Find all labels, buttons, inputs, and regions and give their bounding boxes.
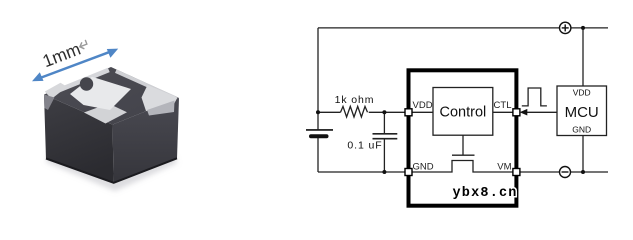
svg-text:GND: GND xyxy=(413,162,434,173)
pin squares xyxy=(405,109,520,176)
svg-text:MCU: MCU xyxy=(565,104,599,121)
chip photo: pin1 dark dot xyxy=(80,77,93,90)
svg-text:1k ohm: 1k ohm xyxy=(335,94,375,106)
chip photo: pad wrap on right side face xyxy=(147,101,175,116)
chip photo: pad strip along top-left edge xyxy=(57,68,110,93)
chip photo: pad wrap on left side face xyxy=(44,95,55,111)
top wire xyxy=(318,27,560,29)
capacitor C 0.1uF xyxy=(373,112,398,172)
wire from battery node to resistor xyxy=(318,111,341,113)
MOSFET inside box xyxy=(409,135,517,172)
svg-text:ybx8.cn: ybx8.cn xyxy=(453,186,518,201)
pin labels xyxy=(413,100,512,173)
Control block xyxy=(433,88,493,136)
chip photo: right side face xyxy=(113,98,180,183)
gate bar xyxy=(452,154,475,156)
left vertical wire (top to battery) xyxy=(317,28,319,129)
svg-text:0.1 uF: 0.1 uF xyxy=(347,140,382,152)
bottom wire VM to right xyxy=(520,171,560,173)
gate lead from Control xyxy=(462,135,464,155)
chip photo: bottom corner pad xyxy=(84,104,127,124)
chip photo: left side face xyxy=(44,95,114,184)
chip photo: shadow xyxy=(46,154,177,191)
wire VDD pin to Control xyxy=(409,111,434,113)
channel: GND pin to bump to VM pin xyxy=(409,161,517,173)
svg-text:VDD: VDD xyxy=(413,100,433,111)
wire resistor to VDD pin xyxy=(369,111,405,113)
chip photo: pad strip along top-right edge xyxy=(115,70,176,100)
svg-text:CTL: CTL xyxy=(494,100,512,111)
chip photo: left corner pad xyxy=(45,83,67,99)
svg-text:VM: VM xyxy=(497,162,511,173)
dimension arrow (blue) xyxy=(32,49,118,82)
MCU bottom vertical wire xyxy=(582,136,584,173)
chip photo: top face base xyxy=(44,67,179,125)
bottom wire left segment xyxy=(318,171,405,173)
- terminal xyxy=(560,167,571,178)
MCU block xyxy=(557,86,607,136)
chip photo: right corner pad xyxy=(142,85,178,111)
wire Control to CTL pin xyxy=(493,111,517,113)
pulse symbol xyxy=(522,88,547,106)
device thick box xyxy=(409,70,517,205)
svg-text:GND: GND xyxy=(572,125,591,135)
return glyph xyxy=(78,40,88,50)
svg-text:Control: Control xyxy=(440,105,487,121)
battery xyxy=(306,130,333,136)
chip photo: center diamond pad xyxy=(70,77,131,110)
resistor R 1k xyxy=(341,106,368,117)
CTL input arrowhead xyxy=(520,109,528,116)
left vertical wire (battery to bottom) xyxy=(317,137,319,172)
wire: + to right end xyxy=(571,27,608,29)
CTL to MCU wire xyxy=(527,111,557,113)
dimension label 1mm xyxy=(40,36,91,72)
+ terminal xyxy=(560,22,571,33)
MCU top vertical wire xyxy=(582,28,584,86)
chip photo: bottom edge shading xyxy=(46,158,177,183)
svg-text:VDD: VDD xyxy=(573,88,591,98)
junction dots xyxy=(316,110,320,114)
